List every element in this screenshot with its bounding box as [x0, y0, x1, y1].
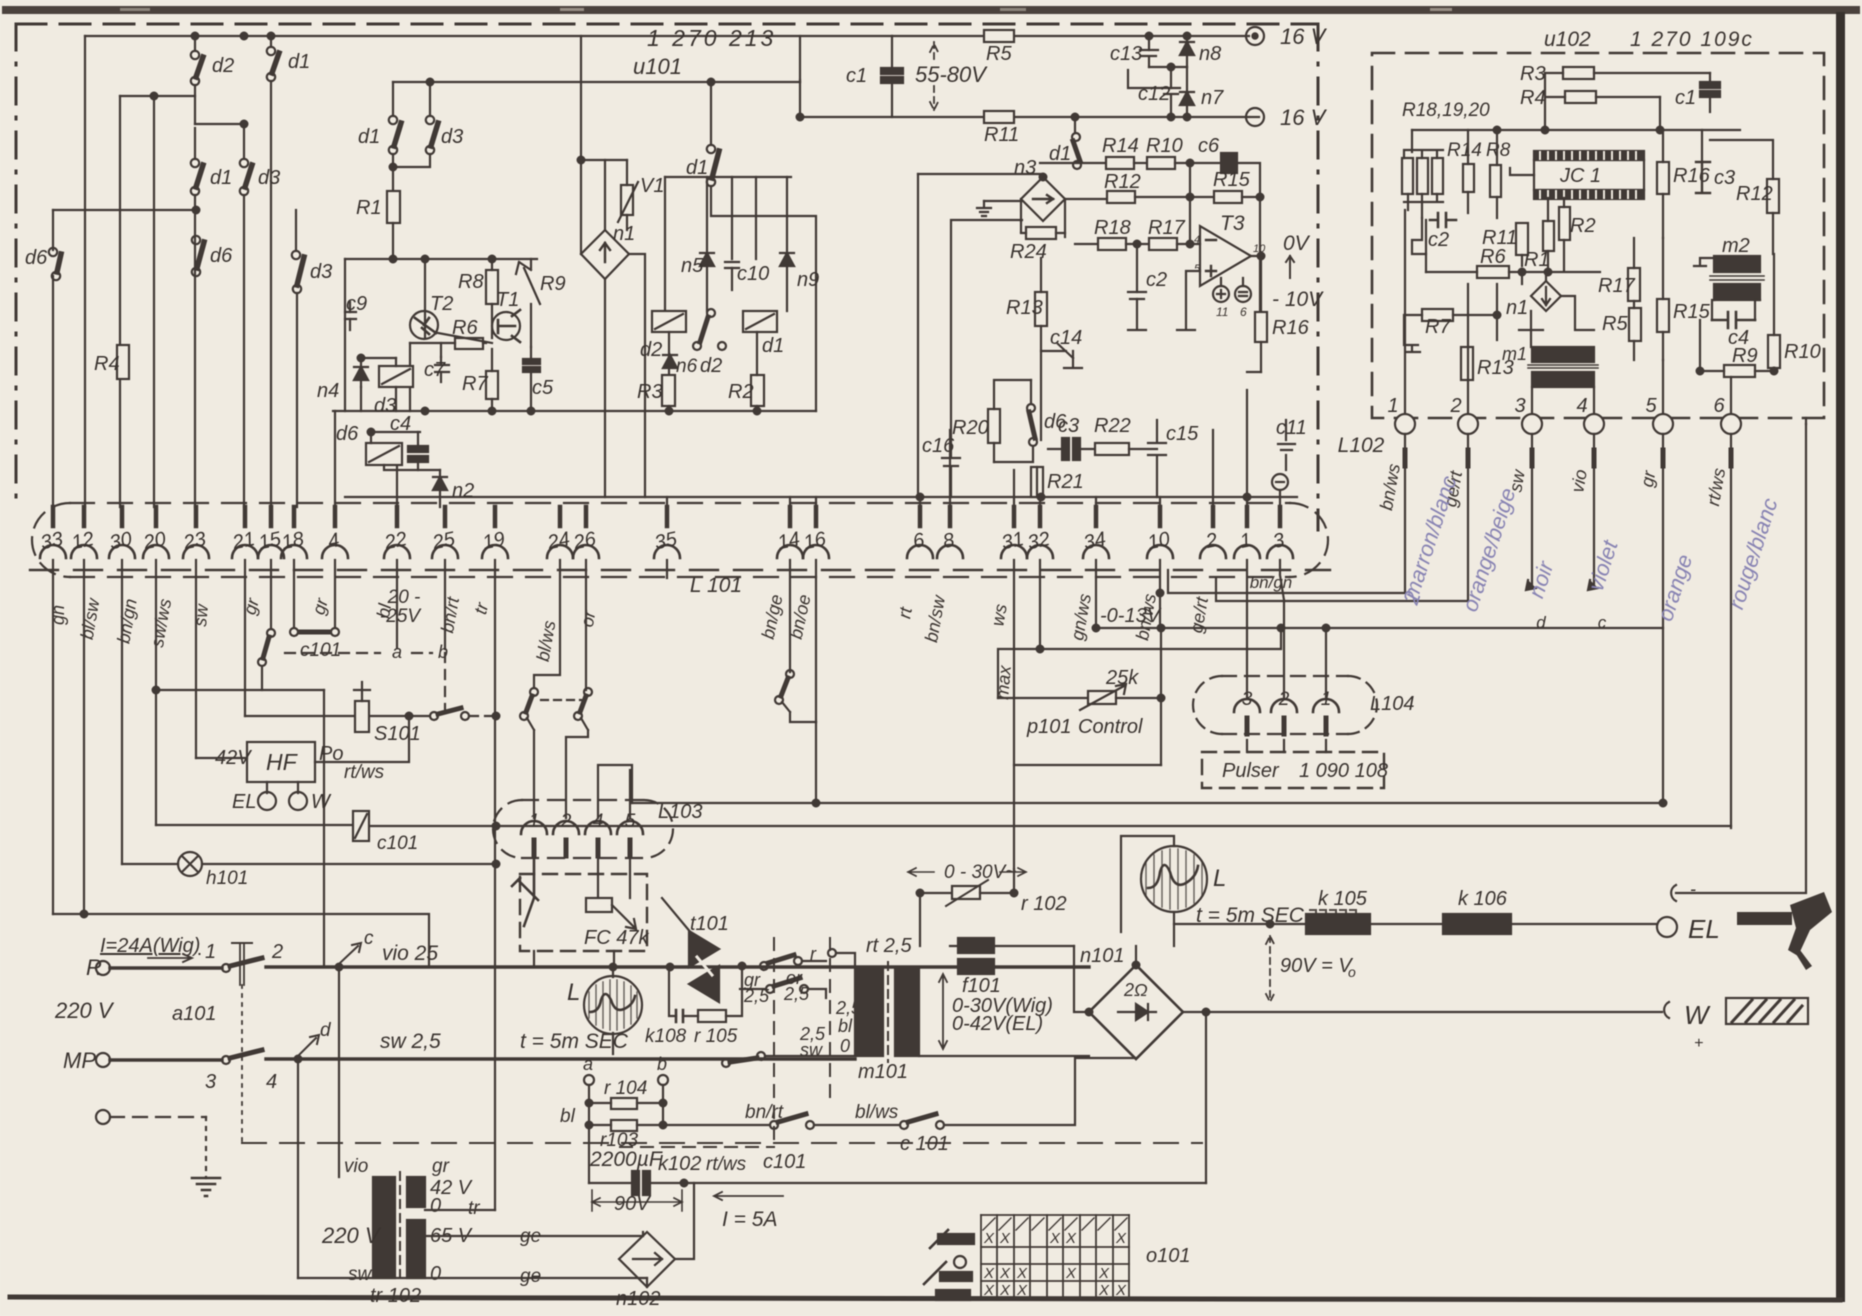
svg-text:R5: R5: [986, 43, 1012, 65]
svg-text:d1: d1: [288, 51, 310, 73]
svg-text:R8: R8: [458, 271, 484, 293]
svg-text:r 104: r 104: [604, 1078, 647, 1099]
svg-text:R6: R6: [1480, 246, 1506, 268]
svg-text:R1: R1: [1524, 249, 1550, 271]
svg-text:R4: R4: [94, 353, 120, 375]
svg-text:p101: p101: [1026, 716, 1072, 738]
svg-text:d6: d6: [25, 247, 48, 269]
svg-text:sw: sw: [348, 1264, 373, 1285]
svg-text:rt/ws: rt/ws: [344, 762, 385, 783]
svg-text:X: X: [999, 1265, 1011, 1282]
svg-text:32: 32: [1026, 528, 1052, 554]
svg-text:rt 2,5: rt 2,5: [866, 935, 912, 957]
svg-text:tr: tr: [468, 1198, 480, 1219]
svg-text:T3: T3: [1220, 212, 1245, 235]
svg-text:r 102: r 102: [1021, 893, 1067, 915]
svg-text:L: L: [1213, 865, 1226, 892]
svg-text:r: r: [810, 944, 817, 964]
svg-text:1: 1: [205, 941, 216, 963]
svg-text:c15: c15: [1166, 423, 1199, 445]
svg-text:R2: R2: [728, 381, 754, 403]
svg-text:0V: 0V: [1283, 232, 1311, 255]
svg-text:4: 4: [266, 1071, 277, 1093]
svg-text:c3: c3: [1058, 415, 1079, 437]
svg-text:55-80V: 55-80V: [915, 62, 988, 87]
svg-text:W: W: [1684, 1000, 1711, 1030]
svg-text:16 V: 16 V: [1280, 105, 1328, 130]
svg-text:X: X: [1115, 1230, 1127, 1247]
svg-text:33: 33: [39, 528, 65, 554]
svg-text:o: o: [1348, 964, 1356, 980]
svg-text:R17: R17: [1148, 217, 1186, 239]
svg-text:n7: n7: [1201, 87, 1224, 109]
svg-text:X: X: [983, 1282, 995, 1299]
svg-text:d3: d3: [441, 126, 463, 148]
svg-text:X: X: [999, 1282, 1011, 1299]
svg-text:R18: R18: [1094, 217, 1131, 239]
svg-text:16 V: 16 V: [1280, 24, 1328, 49]
svg-text:Pulser: Pulser: [1222, 760, 1280, 782]
svg-text:d2: d2: [212, 55, 234, 77]
svg-text:n3: n3: [1014, 157, 1036, 179]
svg-text:I=24A(Wig): I=24A(Wig): [100, 935, 200, 957]
svg-text:d3: d3: [258, 167, 280, 189]
svg-text:- 10V: - 10V: [1272, 288, 1324, 311]
svg-text:c9: c9: [346, 293, 367, 315]
svg-text:X: X: [983, 1230, 995, 1247]
svg-text:1: 1: [1387, 395, 1398, 417]
svg-text:L: L: [567, 979, 580, 1006]
svg-text:sw: sw: [190, 603, 212, 628]
svg-text:34: 34: [1082, 528, 1108, 554]
svg-text:b: b: [438, 642, 448, 662]
svg-text:max: max: [992, 664, 1015, 701]
svg-text:c3: c3: [1714, 167, 1735, 189]
svg-text:n101: n101: [1080, 945, 1125, 967]
svg-text:vio: vio: [1567, 468, 1591, 494]
svg-text:c4: c4: [390, 413, 411, 435]
svg-text:L 101: L 101: [690, 574, 742, 597]
svg-text:10: 10: [1146, 528, 1172, 554]
svg-text:c101: c101: [377, 833, 418, 854]
svg-text:2: 2: [271, 941, 283, 963]
svg-text:0: 0: [430, 1263, 441, 1285]
svg-text:c1: c1: [846, 65, 867, 87]
svg-text:X: X: [1098, 1282, 1110, 1299]
svg-text:m101: m101: [858, 1061, 908, 1083]
svg-text:Control: Control: [1078, 716, 1143, 738]
svg-text:R10: R10: [1784, 341, 1821, 363]
svg-text:d: d: [1536, 613, 1546, 632]
svg-text:4: 4: [1576, 395, 1587, 417]
svg-text:14: 14: [776, 528, 802, 554]
svg-text:b: b: [657, 1054, 667, 1074]
svg-text:k102: k102: [658, 1153, 701, 1175]
svg-text:r 105: r 105: [694, 1026, 738, 1047]
svg-text:n4: n4: [317, 380, 339, 402]
svg-text:2Ω: 2Ω: [1123, 980, 1148, 1000]
svg-text:gr: gr: [432, 1156, 450, 1177]
svg-text:R21: R21: [1047, 471, 1084, 493]
svg-text:3: 3: [1514, 395, 1525, 417]
svg-text:f101: f101: [962, 975, 1001, 997]
svg-text:R3: R3: [1520, 63, 1546, 85]
svg-text:bl: bl: [838, 1016, 853, 1036]
svg-text:bn/gn: bn/gn: [1250, 573, 1293, 592]
svg-text:0: 0: [840, 1036, 850, 1056]
svg-text:2: 2: [1449, 395, 1461, 417]
svg-text:d: d: [320, 1020, 332, 1041]
svg-text:c 101: c 101: [900, 1133, 949, 1155]
svg-text:2,5: 2,5: [783, 984, 810, 1004]
svg-text:R4: R4: [1520, 87, 1546, 109]
svg-text:0: 0: [430, 1195, 441, 1217]
svg-text:R11: R11: [984, 124, 1019, 146]
svg-text:30: 30: [108, 528, 134, 554]
svg-text:R17: R17: [1598, 275, 1636, 297]
svg-text:a101: a101: [172, 1003, 217, 1025]
svg-text:d2: d2: [640, 339, 662, 361]
svg-text:d1: d1: [686, 157, 708, 179]
svg-text:c101: c101: [300, 640, 341, 661]
svg-text:25k: 25k: [1105, 667, 1139, 689]
svg-text:c2: c2: [1146, 269, 1167, 291]
svg-text:R7: R7: [1425, 316, 1451, 338]
svg-text:5: 5: [1194, 263, 1201, 275]
svg-text:R6: R6: [452, 317, 478, 339]
svg-text:R9: R9: [1732, 345, 1758, 367]
svg-text:k 105: k 105: [1318, 888, 1368, 910]
svg-text:o101: o101: [1146, 1245, 1191, 1267]
svg-text:R13: R13: [1006, 297, 1043, 319]
svg-text:X: X: [1016, 1265, 1028, 1282]
svg-text:HF: HF: [266, 749, 299, 775]
svg-text:n5: n5: [681, 255, 704, 277]
svg-text:c10: c10: [737, 263, 769, 285]
svg-text:c2: c2: [1428, 229, 1449, 251]
svg-text:2,5: 2,5: [743, 986, 770, 1006]
svg-text:sw 2,5: sw 2,5: [380, 1030, 441, 1053]
svg-text:L103: L103: [658, 801, 703, 823]
svg-text:d2: d2: [700, 355, 722, 377]
svg-text:d1: d1: [762, 335, 784, 357]
svg-text:R16: R16: [1272, 317, 1310, 339]
svg-text:gn: gn: [48, 605, 68, 625]
svg-text:d6: d6: [210, 245, 233, 267]
svg-text:n6: n6: [676, 356, 698, 377]
svg-text:X: X: [1049, 1230, 1061, 1247]
svg-text:5: 5: [1645, 395, 1657, 417]
svg-text:n102: n102: [616, 1288, 661, 1310]
svg-text:220 V: 220 V: [321, 1223, 382, 1248]
svg-text:0-42V(EL): 0-42V(EL): [952, 1013, 1043, 1035]
svg-text:R10: R10: [1146, 135, 1183, 157]
svg-text:X: X: [1115, 1282, 1127, 1299]
svg-text:k108: k108: [645, 1026, 687, 1047]
svg-text:19: 19: [481, 528, 507, 554]
svg-text:c5: c5: [532, 377, 554, 399]
svg-text:c: c: [1598, 613, 1607, 632]
svg-text:1 270 109c: 1 270 109c: [1630, 28, 1754, 51]
svg-text:c101: c101: [763, 1151, 806, 1173]
svg-text:rt/ws: rt/ws: [706, 1154, 747, 1175]
svg-text:a: a: [392, 642, 402, 662]
svg-text:L104: L104: [1370, 693, 1415, 715]
svg-text:u102: u102: [1544, 28, 1591, 51]
svg-text:6: 6: [1713, 395, 1725, 417]
svg-text:JC 1: JC 1: [1559, 165, 1601, 187]
svg-text:T1: T1: [496, 289, 519, 311]
svg-text:c6: c6: [1198, 135, 1220, 157]
svg-text:ws: ws: [987, 602, 1011, 627]
svg-text:R: R: [86, 955, 102, 980]
svg-text:d3: d3: [310, 261, 332, 283]
svg-text:h101: h101: [206, 868, 248, 889]
svg-text:R1: R1: [356, 197, 382, 219]
svg-text:c12: c12: [1138, 83, 1170, 105]
svg-text:n9: n9: [797, 269, 819, 291]
svg-text:t101: t101: [690, 913, 729, 935]
svg-text:R15: R15: [1673, 301, 1711, 323]
svg-text:I = 5A: I = 5A: [722, 1208, 777, 1231]
svg-text:18: 18: [280, 528, 306, 554]
svg-text:V1: V1: [640, 175, 664, 197]
svg-text:R9: R9: [540, 273, 566, 295]
svg-text:R22: R22: [1094, 415, 1131, 437]
svg-text:R14: R14: [1447, 140, 1482, 161]
svg-text:n1: n1: [613, 223, 635, 245]
svg-text:vio: vio: [344, 1156, 368, 1177]
svg-text:c11: c11: [1276, 417, 1307, 439]
svg-text:T2: T2: [430, 293, 453, 315]
svg-text:MP: MP: [63, 1048, 96, 1073]
svg-text:m2: m2: [1722, 235, 1750, 257]
svg-text:R20: R20: [952, 417, 989, 439]
svg-text:EL: EL: [1688, 914, 1720, 944]
svg-text:R2: R2: [1570, 215, 1596, 237]
svg-text:d1: d1: [210, 167, 232, 189]
svg-text:90V = V: 90V = V: [1280, 955, 1353, 977]
svg-text:c: c: [364, 928, 374, 949]
svg-text:1 090 108: 1 090 108: [1299, 760, 1388, 782]
svg-text:+: +: [1694, 1035, 1703, 1052]
svg-text:X: X: [1016, 1282, 1028, 1299]
svg-text:12: 12: [70, 528, 96, 554]
svg-text:n1: n1: [1506, 297, 1528, 319]
svg-text:R8: R8: [1486, 140, 1511, 161]
svg-text:d1: d1: [1049, 143, 1071, 165]
svg-text:R16: R16: [1673, 165, 1711, 187]
svg-text:-25V: -25V: [380, 606, 422, 627]
svg-text:c14: c14: [1050, 327, 1082, 349]
svg-text:R3: R3: [637, 381, 663, 403]
svg-text:31: 31: [1000, 528, 1026, 554]
svg-text:-: -: [1690, 879, 1696, 899]
svg-text:90V: 90V: [614, 1193, 651, 1215]
svg-text:m1: m1: [1502, 344, 1527, 364]
svg-text:R15: R15: [1213, 169, 1251, 191]
svg-text:bl: bl: [560, 1106, 576, 1127]
svg-text:3: 3: [205, 1071, 216, 1093]
svg-text:11: 11: [1216, 305, 1228, 319]
svg-text:R5: R5: [1602, 313, 1628, 335]
svg-text:d1: d1: [358, 126, 380, 148]
svg-text:R18,19,20: R18,19,20: [1402, 100, 1490, 121]
svg-text:c7: c7: [424, 359, 446, 381]
svg-text:4: 4: [1194, 234, 1200, 246]
svg-text:FC 47k: FC 47k: [584, 927, 649, 949]
svg-text:c1: c1: [1675, 87, 1696, 109]
svg-text:ge: ge: [520, 1266, 541, 1287]
svg-text:20 -: 20 -: [387, 587, 421, 608]
svg-text:220 V: 220 V: [54, 998, 115, 1023]
svg-text:6: 6: [1240, 305, 1247, 319]
svg-text:R12: R12: [1104, 171, 1141, 193]
svg-text:bl/ws: bl/ws: [855, 1102, 899, 1123]
svg-text:-0-13V: -0-13V: [1100, 605, 1162, 627]
svg-text:2200µF: 2200µF: [589, 1148, 663, 1171]
svg-text:k 106: k 106: [1458, 888, 1508, 910]
svg-text:S101: S101: [374, 723, 421, 745]
svg-text:vio 25: vio 25: [382, 942, 438, 965]
svg-text:tr 102: tr 102: [370, 1285, 421, 1307]
svg-text:d6: d6: [336, 423, 359, 445]
svg-text:L102: L102: [1338, 434, 1385, 457]
svg-text:u101: u101: [633, 54, 682, 79]
svg-text:R7: R7: [462, 373, 488, 395]
svg-text:ge: ge: [520, 1226, 541, 1247]
svg-text:1 270 213: 1 270 213: [647, 25, 776, 51]
svg-text:n8: n8: [1199, 43, 1221, 65]
svg-text:X: X: [983, 1265, 995, 1282]
svg-text:X: X: [999, 1230, 1011, 1247]
svg-text:X: X: [1065, 1265, 1077, 1282]
svg-text:a: a: [583, 1054, 593, 1074]
svg-text:bn/rt: bn/rt: [745, 1102, 784, 1123]
svg-text:R12: R12: [1736, 183, 1773, 205]
svg-text:X: X: [1098, 1265, 1110, 1282]
svg-text:X: X: [1065, 1230, 1077, 1247]
svg-text:R14: R14: [1102, 135, 1139, 157]
svg-text:n2: n2: [452, 480, 474, 502]
svg-text:c13: c13: [1110, 43, 1142, 65]
